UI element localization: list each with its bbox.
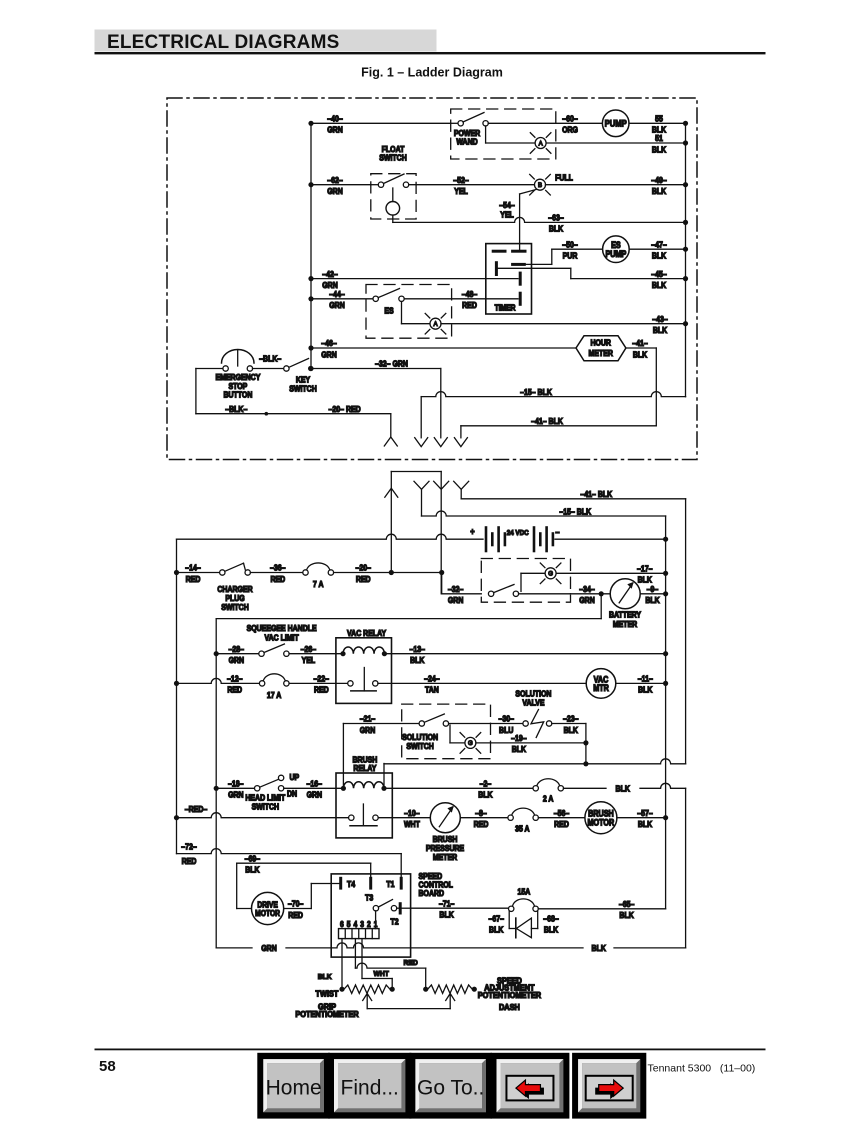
svg-text:UP: UP <box>290 772 300 782</box>
svg-text:–RED–: –RED– <box>185 804 208 814</box>
svg-text:POTENTIOMETER: POTENTIOMETER <box>478 991 542 1000</box>
svg-text:–9–: –9– <box>647 584 659 594</box>
svg-text:–36–: –36– <box>270 563 286 573</box>
svg-text:–56–: –56– <box>554 808 570 818</box>
svg-text:–19–: –19– <box>511 734 527 744</box>
svg-text:–28–: –28– <box>229 644 245 654</box>
svg-text:BLK: BLK <box>544 925 559 935</box>
svg-text:5: 5 <box>347 919 351 929</box>
svg-text:GRN: GRN <box>261 944 277 954</box>
svg-text:METER: METER <box>433 852 458 862</box>
svg-text:GRN: GRN <box>307 790 323 800</box>
svg-text:–11–: –11– <box>638 674 654 684</box>
svg-text:RED: RED <box>314 685 329 695</box>
svg-text:FULL: FULL <box>555 173 573 183</box>
svg-text:–17–: –17– <box>637 564 653 574</box>
svg-text:–22–: –22– <box>314 674 330 684</box>
svg-text:DASH: DASH <box>499 1003 520 1012</box>
svg-text:GRN: GRN <box>329 301 345 311</box>
svg-text:SWITCH: SWITCH <box>379 153 407 163</box>
svg-text:–15– BLK: –15– BLK <box>520 387 552 397</box>
svg-text:SWITCH: SWITCH <box>289 384 317 394</box>
svg-text:–24–: –24– <box>424 674 440 684</box>
svg-text:BLK: BLK <box>652 145 667 155</box>
svg-text:BATTERY: BATTERY <box>609 610 641 620</box>
svg-text:BLK: BLK <box>638 685 653 695</box>
svg-text:WAND: WAND <box>456 137 478 147</box>
svg-text:35 A: 35 A <box>515 824 530 834</box>
svg-text:RED: RED <box>270 574 285 584</box>
svg-text:–54–: –54– <box>499 200 515 210</box>
svg-text:TWIST: TWIST <box>315 989 338 998</box>
svg-text:–14–: –14– <box>185 563 201 573</box>
svg-text:RED: RED <box>186 574 201 584</box>
svg-text:TIMER: TIMER <box>495 303 516 313</box>
svg-text:RED: RED <box>356 574 371 584</box>
svg-text:–70–: –70– <box>288 899 304 909</box>
svg-text:–8–: –8– <box>475 808 487 818</box>
svg-text:RED: RED <box>462 301 477 311</box>
svg-text:+: + <box>470 526 475 537</box>
svg-text:GRN: GRN <box>579 596 595 606</box>
svg-text:–21–: –21– <box>360 714 376 724</box>
svg-text:–69–: –69– <box>245 854 261 864</box>
svg-text:VAC LIMIT: VAC LIMIT <box>264 633 299 643</box>
svg-text:SWITCH: SWITCH <box>252 802 280 812</box>
svg-text:–60–: –60– <box>562 114 578 124</box>
svg-text:Home: Home <box>266 1077 322 1100</box>
svg-text:G: G <box>548 570 553 577</box>
svg-text:RED: RED <box>403 959 417 967</box>
svg-text:T1: T1 <box>386 879 395 889</box>
svg-text:BLK: BLK <box>645 596 660 606</box>
svg-text:PUMP: PUMP <box>605 249 626 259</box>
svg-text:–10–: –10– <box>404 808 420 818</box>
svg-text:BLK: BLK <box>638 575 653 585</box>
svg-text:–20–: –20– <box>355 563 371 573</box>
svg-text:–62–: –62– <box>327 175 343 185</box>
svg-text:–32– GRN: –32– GRN <box>375 359 408 369</box>
svg-text:MTR: MTR <box>593 683 609 693</box>
svg-text:BUTTON: BUTTON <box>223 390 252 400</box>
svg-text:POTENTIOMETER: POTENTIOMETER <box>295 1010 359 1019</box>
svg-text:–68–: –68– <box>543 914 559 924</box>
svg-text:–41– BLK: –41– BLK <box>531 417 563 427</box>
svg-text:WHT: WHT <box>374 970 390 978</box>
svg-text:T3: T3 <box>365 893 373 903</box>
svg-text:GRN: GRN <box>360 725 376 735</box>
svg-text:–23–: –23– <box>563 714 579 724</box>
svg-text:METER: METER <box>589 348 614 358</box>
svg-text:–: – <box>555 526 560 537</box>
svg-text:VAC RELAY: VAC RELAY <box>347 628 386 638</box>
svg-text:G: G <box>468 740 473 747</box>
svg-text:BLK: BLK <box>653 325 668 335</box>
svg-text:–42–: –42– <box>322 269 338 279</box>
svg-text:BLK: BLK <box>478 790 493 800</box>
svg-text:TAN: TAN <box>425 685 439 695</box>
svg-text:–BLK–: –BLK– <box>225 404 248 414</box>
svg-text:3: 3 <box>360 919 364 929</box>
svg-text:DN: DN <box>287 789 297 799</box>
svg-text:–45–: –45– <box>651 269 667 279</box>
svg-text:Fig. 1 – Ladder Diagram: Fig. 1 – Ladder Diagram <box>361 66 503 80</box>
svg-text:BLK: BLK <box>652 251 667 261</box>
svg-text:–13–: –13– <box>410 644 426 654</box>
svg-text:RED: RED <box>554 819 569 829</box>
svg-text:2 A: 2 A <box>543 794 554 804</box>
svg-text:BLK: BLK <box>489 925 504 935</box>
svg-text:–30–: –30– <box>498 714 514 724</box>
svg-text:–2–: –2– <box>480 779 492 789</box>
svg-text:2: 2 <box>367 919 371 929</box>
svg-text:–12–: –12– <box>227 674 243 684</box>
svg-text:7 A: 7 A <box>313 579 324 589</box>
svg-text:–34–: –34– <box>579 584 595 594</box>
svg-text:BLK: BLK <box>245 865 260 875</box>
svg-text:BLK: BLK <box>564 725 579 735</box>
svg-text:–50–: –50– <box>562 240 578 250</box>
svg-text:–47–: –47– <box>651 240 667 250</box>
svg-text:55: 55 <box>655 114 663 124</box>
svg-text:–26–: –26– <box>301 644 317 654</box>
svg-text:BLK: BLK <box>652 186 667 196</box>
svg-text:–BLK–: –BLK– <box>259 354 282 364</box>
svg-text:–48–: –48– <box>462 289 478 299</box>
svg-text:–67–: –67– <box>488 914 504 924</box>
svg-text:PUR: PUR <box>563 251 578 261</box>
svg-text:–16–: –16– <box>307 779 323 789</box>
svg-text:–46–: –46– <box>321 339 337 349</box>
svg-text:METER: METER <box>613 619 638 629</box>
svg-text:–41– BLK: –41– BLK <box>580 490 612 500</box>
svg-text:Tennant 5300 (11–00): Tennant 5300 (11–00) <box>648 1063 756 1075</box>
svg-text:YEL: YEL <box>454 186 468 196</box>
svg-text:4: 4 <box>354 919 359 929</box>
svg-text:HOUR: HOUR <box>590 338 611 348</box>
svg-text:BLK: BLK <box>512 745 527 755</box>
svg-text:24 VDC: 24 VDC <box>507 530 529 538</box>
svg-text:–15– BLK: –15– BLK <box>559 507 591 517</box>
svg-text:SQUEEGEE HANDLE: SQUEEGEE HANDLE <box>247 623 317 633</box>
svg-text:VALVE: VALVE <box>522 698 544 708</box>
svg-text:GRN: GRN <box>327 125 343 135</box>
svg-text:ES: ES <box>384 306 393 316</box>
svg-text:YEL: YEL <box>302 655 316 665</box>
svg-text:BLK: BLK <box>318 973 333 981</box>
svg-text:58: 58 <box>99 1058 116 1075</box>
svg-text:Find...: Find... <box>341 1077 399 1100</box>
svg-text:–65–: –65– <box>619 899 635 909</box>
svg-text:RED: RED <box>182 856 197 866</box>
svg-text:SWITCH: SWITCH <box>221 602 249 612</box>
svg-text:GRN: GRN <box>327 186 343 196</box>
svg-text:15A: 15A <box>518 887 531 897</box>
svg-text:B: B <box>538 182 542 189</box>
svg-text:–71–: –71– <box>439 899 455 909</box>
svg-text:17 A: 17 A <box>267 690 282 700</box>
svg-text:BLK: BLK <box>410 655 425 665</box>
svg-text:–43–: –43– <box>652 314 668 324</box>
svg-text:–44–: –44– <box>329 289 345 299</box>
svg-text:BLK: BLK <box>619 911 634 921</box>
svg-text:–57–: –57– <box>637 808 653 818</box>
svg-text:–49–: –49– <box>651 175 667 185</box>
svg-text:–20– RED: –20– RED <box>329 404 362 414</box>
svg-text:BLK: BLK <box>549 224 564 234</box>
svg-text:T4: T4 <box>347 879 356 889</box>
svg-text:51: 51 <box>655 134 663 144</box>
svg-text:RED: RED <box>227 685 242 695</box>
svg-text:BLK: BLK <box>592 944 607 954</box>
svg-text:–52–: –52– <box>453 175 469 185</box>
svg-text:MOTOR: MOTOR <box>255 908 280 918</box>
svg-text:–72–: –72– <box>181 842 197 852</box>
svg-text:RELAY: RELAY <box>353 763 376 773</box>
svg-text:SWITCH: SWITCH <box>406 741 434 751</box>
svg-text:MOTOR: MOTOR <box>588 818 615 828</box>
svg-text:Go To..: Go To.. <box>417 1077 484 1100</box>
svg-text:GRN: GRN <box>448 596 464 606</box>
svg-text:–40–: –40– <box>327 114 343 124</box>
svg-text:ORG: ORG <box>562 125 578 135</box>
svg-text:–41–: –41– <box>632 339 648 349</box>
svg-text:BLK: BLK <box>638 819 653 829</box>
svg-text:PUMP: PUMP <box>605 118 627 129</box>
svg-text:6: 6 <box>340 919 344 929</box>
svg-text:–63–: –63– <box>548 213 564 223</box>
svg-text:BLK: BLK <box>439 910 454 920</box>
svg-text:RED: RED <box>474 819 489 829</box>
svg-text:BLK: BLK <box>652 280 667 290</box>
svg-text:WHT: WHT <box>404 819 420 829</box>
svg-text:T2: T2 <box>391 917 399 927</box>
svg-text:BLK: BLK <box>616 784 631 794</box>
svg-text:GRN: GRN <box>321 350 337 360</box>
svg-text:RED: RED <box>288 910 303 920</box>
svg-text:–32–: –32– <box>448 584 464 594</box>
svg-text:BOARD: BOARD <box>419 888 445 898</box>
svg-text:–18–: –18– <box>228 779 244 789</box>
svg-text:GRN: GRN <box>229 655 245 665</box>
svg-text:YEL: YEL <box>500 210 514 220</box>
svg-text:GRN: GRN <box>228 790 244 800</box>
svg-text:BLK: BLK <box>633 350 648 360</box>
svg-text:ELECTRICAL DIAGRAMS: ELECTRICAL DIAGRAMS <box>107 32 340 53</box>
